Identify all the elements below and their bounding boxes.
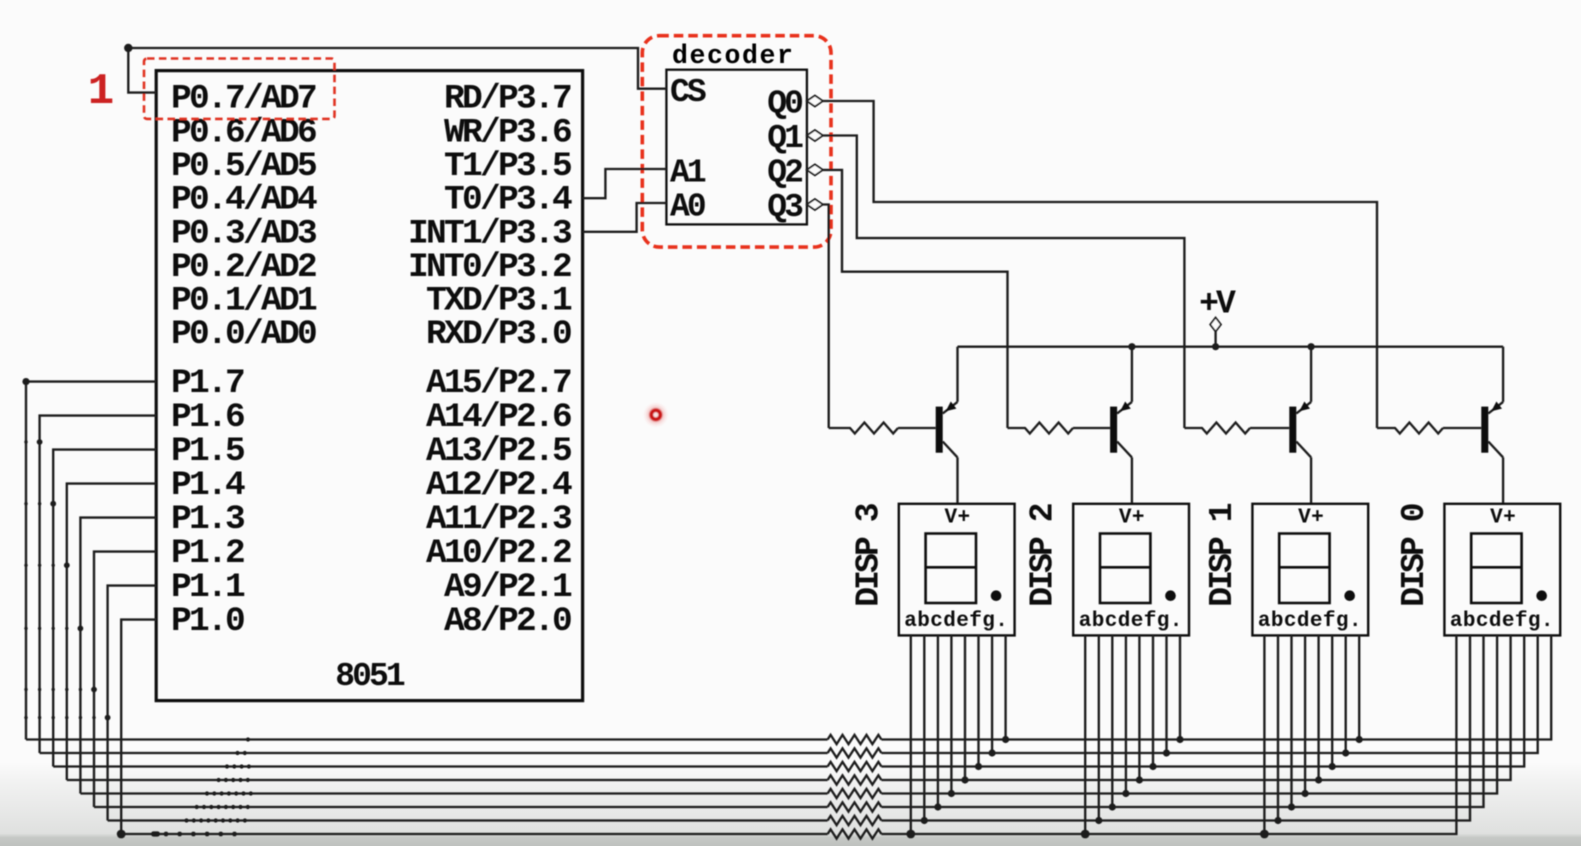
- junction node DISP 1 c: [1288, 803, 1295, 810]
- svg-text:A1: A1: [670, 155, 706, 192]
- resistor bus R12: [828, 829, 882, 838]
- wire display DISP 3 segment e pin to bus: [964, 635, 966, 780]
- bus wire segment line 7 (right run): [881, 635, 1470, 820]
- junction node DISP 2 b: [1095, 817, 1102, 824]
- wire display DISP 2 segment c pin to bus: [1111, 635, 1113, 807]
- bus wire segment line 4 (left run): [67, 779, 828, 781]
- bus wire segment line 5 (right run): [881, 635, 1497, 793]
- wire R1 to base: [898, 427, 936, 429]
- transistor Q4 (DISP 0) PNP: [1481, 347, 1503, 504]
- junction node DISP 2 d: [1122, 790, 1129, 797]
- wire decoder Q0 to transistor base: [823, 101, 1377, 428]
- wire R4 to base: [1443, 427, 1481, 429]
- wire display DISP 3 segment . pin to bus: [1004, 635, 1006, 739]
- svg-text:DISP 2: DISP 2: [1025, 504, 1062, 607]
- resistor bus R9: [828, 789, 882, 798]
- svg-text:abcdefg.: abcdefg.: [1258, 610, 1362, 633]
- bus wire segment line 1 (right run): [881, 635, 1551, 739]
- junction node DISP 3 d: [948, 790, 955, 797]
- wire display DISP 1 segment c pin to bus: [1290, 635, 1292, 807]
- svg-text:DISP 3: DISP 3: [850, 503, 887, 607]
- junction node DISP 1 g: [1342, 749, 1349, 756]
- junction node DISP 3 f: [975, 763, 982, 770]
- bus wire segment line 8 (right run): [881, 635, 1456, 834]
- wire P1.5 to segment bus line 3: [53, 450, 156, 767]
- wire display DISP 3 segment g pin to bus: [991, 635, 993, 753]
- resistor bus R11: [828, 816, 882, 825]
- transistor Q1 (DISP 3) PNP: [936, 347, 958, 504]
- wire INT1/P3.3 to decoder A0: [583, 203, 667, 232]
- bus wire segment line 6 (right run): [881, 635, 1483, 807]
- svg-text:A0: A0: [670, 189, 705, 226]
- wire display DISP 3 segment f pin to bus: [977, 635, 979, 766]
- wire dotted bus remnants: [151, 737, 253, 836]
- IC U1 8051 body: [156, 71, 582, 701]
- svg-text:V+: V+: [1298, 507, 1324, 530]
- svg-text:V+: V+: [944, 507, 970, 530]
- decoder U2 body: [666, 70, 807, 225]
- wire P0.7 to decoder CS: [128, 48, 666, 93]
- svg-text:8051: 8051: [335, 658, 405, 695]
- junction node DISP 2 a: [1081, 830, 1090, 839]
- decoder output diamond Q0: [807, 96, 823, 107]
- junction node DISP 1 b: [1274, 817, 1281, 824]
- wire decoder Q2 to transistor base: [823, 170, 1008, 428]
- wire +V emitter rail: [958, 346, 1504, 348]
- wire P1.0 to segment bus line 8: [121, 620, 156, 834]
- transistor Q3 (DISP 1) PNP: [1289, 347, 1311, 504]
- bus wire segment line 3 (left run): [53, 765, 827, 767]
- svg-text:V+: V+: [1490, 507, 1516, 530]
- wire display DISP 1 segment b pin to bus: [1277, 635, 1279, 820]
- bus wire segment line 4 (right run): [881, 635, 1510, 780]
- wire P1.1 to segment bus line 7: [108, 586, 157, 821]
- wire display DISP 2 segment e pin to bus: [1138, 635, 1140, 780]
- bus wire segment line 3 (right run): [881, 635, 1524, 766]
- junction node DISP 3 a: [906, 830, 915, 839]
- junction node top-left: [124, 44, 132, 52]
- bus wire segment line 2 (right run): [881, 635, 1537, 753]
- wire display DISP 1 segment g pin to bus: [1345, 635, 1347, 753]
- junction node DISP 2 c: [1109, 803, 1116, 810]
- 7-segment display DISP 0 body: [1444, 504, 1560, 636]
- bus wire segment line 8 (left run): [121, 833, 827, 835]
- resistor R1: [829, 423, 898, 434]
- resistor bus R5: [828, 735, 882, 744]
- junction node DISP 1 e: [1315, 776, 1322, 783]
- svg-text:Q2: Q2: [767, 154, 802, 191]
- wire decoder Q3 to transistor base: [823, 205, 829, 429]
- resistor R3: [1184, 423, 1250, 434]
- junction node DISP 2 f: [1149, 763, 1156, 770]
- wire dotted crossing remnants on P1 verticals: [24, 439, 110, 720]
- power +V terminal diamond: [1210, 318, 1221, 332]
- 7-segment display DISP 2 body: [1073, 504, 1189, 636]
- svg-text:P0.0/AD0: P0.0/AD0: [171, 315, 316, 354]
- junction node DISP 3 .: [1002, 736, 1009, 743]
- wire P1.3 to segment bus line 5: [80, 518, 156, 794]
- junction node rail/+V: [1212, 343, 1219, 350]
- decoder output diamond Q2: [807, 164, 823, 175]
- svg-text:abcdefg.: abcdefg.: [1450, 610, 1554, 633]
- wire decoder Q1 to transistor base: [823, 136, 1185, 429]
- junction node DISP 3 b: [921, 817, 928, 824]
- wire display DISP 3 segment a pin to bus: [910, 635, 912, 834]
- annotation red dashed box around P0.7/AD7: [144, 59, 335, 119]
- 7-segment display DISP 1 body: [1252, 504, 1368, 636]
- wire display DISP 2 segment f pin to bus: [1152, 635, 1154, 766]
- svg-text:1: 1: [88, 67, 114, 117]
- bus wire segment line 5 (left run): [80, 792, 827, 794]
- wire P1.2 to segment bus line 6: [94, 552, 156, 807]
- resistor R2: [1008, 423, 1074, 434]
- junction node DISP 2 .: [1176, 736, 1183, 743]
- svg-text:abcdefg.: abcdefg.: [1079, 610, 1183, 633]
- wire display DISP 2 segment . pin to bus: [1179, 635, 1181, 739]
- resistor R4: [1377, 423, 1443, 434]
- power +V stem: [1214, 332, 1216, 347]
- decoder output diamond Q3: [807, 199, 823, 210]
- svg-text:V+: V+: [1119, 507, 1145, 530]
- junction node DISP 3 g: [989, 749, 996, 756]
- transistor Q2 (DISP 2) PNP: [1110, 347, 1132, 504]
- junction node DISP 3 c: [934, 803, 941, 810]
- decoder output diamond Q1: [807, 130, 823, 141]
- junction node DISP 1 .: [1356, 736, 1363, 743]
- svg-text:abcdefg.: abcdefg.: [904, 610, 1008, 633]
- junction node DISP 2 e: [1136, 776, 1143, 783]
- wire T0/P3.4 to decoder A1: [583, 169, 667, 198]
- wire display DISP 2 segment g pin to bus: [1165, 635, 1167, 753]
- junction node rail/Q3 emitter: [1308, 343, 1315, 350]
- svg-text:DISP 0: DISP 0: [1396, 504, 1433, 607]
- junction node DISP 1 a: [1260, 830, 1269, 839]
- svg-text:Q1: Q1: [767, 120, 803, 157]
- wire display DISP 3 segment c pin to bus: [937, 635, 939, 807]
- svg-text:decoder: decoder: [672, 41, 795, 71]
- svg-text:DISP 1: DISP 1: [1204, 503, 1241, 607]
- wire display DISP 3 segment b pin to bus: [923, 635, 925, 820]
- wire display DISP 2 segment a pin to bus: [1084, 635, 1086, 834]
- junction node rail/Q2 emitter: [1128, 343, 1135, 350]
- svg-text:RXD/P3.0: RXD/P3.0: [426, 315, 571, 354]
- wire P1.7 to segment bus line 1: [26, 382, 156, 740]
- junction node DISP 2 g: [1163, 749, 1170, 756]
- resistor bus R7: [828, 762, 882, 771]
- junction node P1.0 corner: [117, 830, 126, 839]
- svg-text:Q3: Q3: [767, 189, 803, 226]
- wire display DISP 1 segment e pin to bus: [1317, 635, 1319, 780]
- svg-text:A8/P2.0: A8/P2.0: [444, 602, 571, 641]
- junction node P1.7 corner: [22, 378, 29, 385]
- 7-segment display DISP 3 body: [899, 504, 1015, 636]
- wire P1.4 to segment bus line 4: [67, 484, 156, 780]
- wire display DISP 2 segment b pin to bus: [1098, 635, 1100, 820]
- wire P1.6 to segment bus line 2: [40, 416, 157, 753]
- wire R3 to base: [1250, 427, 1289, 429]
- wire R2 to base: [1073, 427, 1110, 429]
- svg-text:CS: CS: [670, 74, 706, 111]
- wire display DISP 1 segment a pin to bus: [1263, 635, 1265, 834]
- junction node DISP 1 d: [1302, 790, 1309, 797]
- junction node DISP 3 e: [961, 776, 968, 783]
- laser pointer dot: [643, 402, 669, 428]
- bus wire segment line 6 (left run): [94, 806, 828, 808]
- junction node DISP 1 f: [1329, 763, 1336, 770]
- resistor bus R6: [828, 748, 882, 757]
- wire display DISP 2 segment d pin to bus: [1125, 635, 1127, 793]
- decoder U2 red dashed highlight box: [642, 36, 831, 247]
- svg-text:P1.0: P1.0: [171, 602, 244, 641]
- wire display DISP 1 segment d pin to bus: [1304, 635, 1306, 793]
- resistor bus R10: [828, 802, 882, 811]
- wire display DISP 1 segment f pin to bus: [1331, 635, 1333, 766]
- wire display DISP 3 segment d pin to bus: [950, 635, 952, 793]
- svg-text:Q0: Q0: [767, 86, 802, 123]
- resistor bus R8: [828, 775, 882, 784]
- bus wire segment line 7 (left run): [108, 819, 828, 821]
- wire display DISP 1 segment . pin to bus: [1358, 635, 1360, 739]
- bus wire segment line 2 (left run): [40, 752, 828, 754]
- svg-text:+V: +V: [1199, 286, 1236, 323]
- bus wire segment line 1 (left run): [26, 738, 828, 740]
